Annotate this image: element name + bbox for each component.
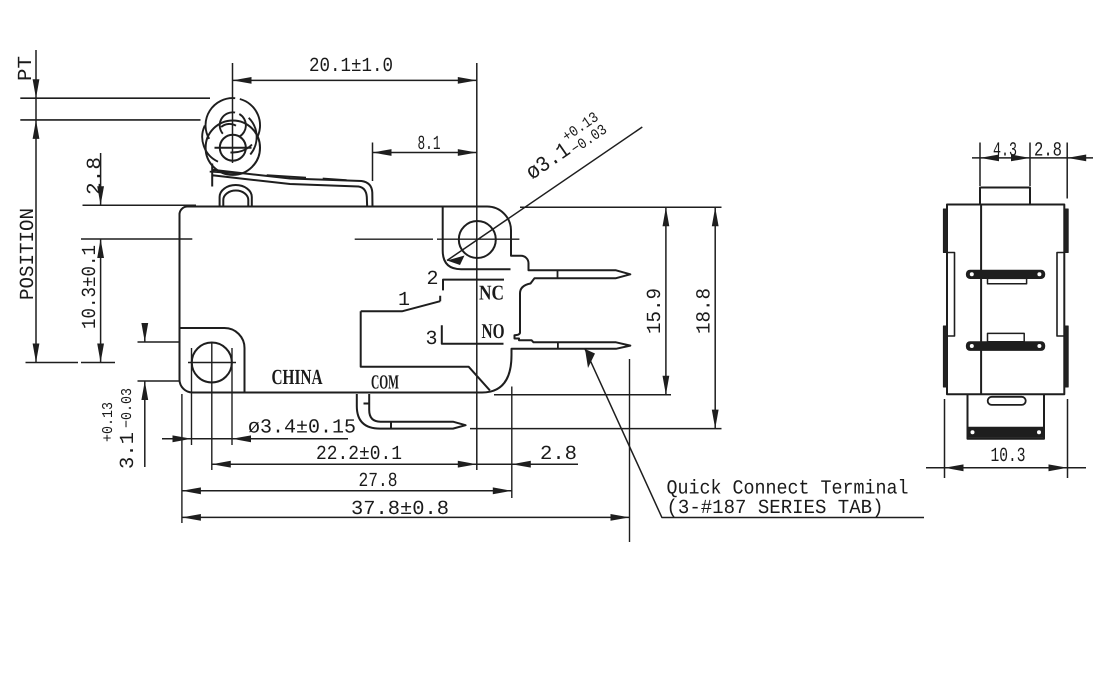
internal contact arm 1: [361, 296, 441, 312]
roller: [206, 121, 260, 175]
end view dimension 10.3: [926, 399, 1086, 478]
svg-text:18.8: 18.8: [694, 288, 717, 334]
end view NO terminal bar: [967, 333, 1045, 350]
COM pocket contour: [361, 311, 490, 390]
svg-text:ø3.4±0.15: ø3.4±0.15: [248, 417, 356, 440]
centerline of top-right hole: [81, 238, 519, 240]
svg-text:37.8±0.8: 37.8±0.8: [351, 498, 449, 521]
lever alternate position dashed: [210, 172, 347, 181]
switch body outline: [179, 206, 630, 392]
svg-text:2: 2: [427, 268, 439, 291]
boss top-right: [443, 207, 511, 269]
svg-text:3.1: 3.1: [117, 432, 140, 469]
svg-text:3: 3: [426, 328, 438, 351]
svg-text:+0.13: +0.13: [100, 402, 117, 442]
NC blade tick: [557, 270, 559, 278]
svg-text:CHINA: CHINA: [272, 365, 323, 389]
internal contact NO line 3: [442, 325, 504, 344]
boss bottom-left: [180, 328, 245, 393]
end view dimension 4.3 and 2.8: [972, 143, 1093, 199]
dimension diameter 3.4: [162, 435, 348, 442]
svg-text:22.2±0.1: 22.2±0.1: [316, 443, 402, 466]
end view side rails: [943, 209, 1068, 387]
svg-text:15.9: 15.9: [644, 288, 667, 334]
svg-text:27.8: 27.8: [359, 470, 398, 493]
dimension 10.3 vertical: [97, 239, 104, 363]
svg-text:POSITION: POSITION: [17, 208, 40, 300]
dimension 15.9: [494, 207, 722, 394]
hole top-right: [459, 221, 496, 258]
dimension 2.8 top-left: [83, 153, 197, 205]
internal contact NC line 2: [443, 280, 504, 291]
hole bottom-left: [192, 343, 232, 383]
dimension 20.1: [233, 63, 477, 470]
COM terminal blade: [357, 394, 466, 429]
svg-text:10.3: 10.3: [991, 445, 1026, 468]
svg-text:NC: NC: [479, 281, 504, 305]
dimension PT / POSITION vertical line: [33, 50, 40, 363]
dimension 22.2 and 2.8: [212, 461, 578, 468]
svg-text:−0.03: −0.03: [119, 388, 136, 428]
dimension 27.8: [182, 487, 512, 494]
svg-text:NO: NO: [482, 319, 505, 343]
operating position reference line: [20, 119, 200, 121]
svg-text:2.8: 2.8: [84, 157, 107, 195]
dimension 8.1: [373, 143, 477, 182]
svg-text:2.8: 2.8: [1034, 140, 1062, 163]
lever arm: [212, 164, 372, 208]
extension line hole centerline left: [26, 362, 79, 364]
free position reference line: [20, 97, 210, 99]
leader diameter 3.1: [447, 127, 642, 265]
svg-text:20.1±1.0: 20.1±1.0: [309, 55, 393, 78]
dim text diameter 3.1: [518, 109, 610, 186]
svg-text:2.8: 2.8: [540, 443, 577, 466]
dimension 18.8: [470, 207, 722, 428]
svg-text:4.3: 4.3: [993, 140, 1017, 163]
dimension 37.8: [182, 514, 630, 521]
svg-text:1: 1: [398, 289, 410, 312]
svg-text:(3-#187 SERIES TAB): (3-#187 SERIES TAB): [667, 497, 884, 520]
dimension 3.1 left: [138, 323, 181, 467]
svg-text:8.1: 8.1: [418, 133, 441, 156]
svg-text:10.3±0.1: 10.3±0.1: [79, 245, 102, 329]
end view bottom tab: [968, 394, 1045, 439]
end view body: [947, 188, 1064, 395]
svg-text:COM: COM: [371, 372, 399, 394]
svg-text:PT: PT: [15, 56, 38, 81]
NO blade tick: [557, 342, 559, 349]
centerline of bottom-left hole: [81, 362, 236, 364]
leader quick connect terminal: [585, 349, 924, 518]
roller phantom position arcs: [202, 98, 260, 162]
plunger dome: [220, 185, 252, 207]
end view NC terminal bar: [967, 270, 1045, 284]
extension lines bottom: [182, 342, 630, 542]
